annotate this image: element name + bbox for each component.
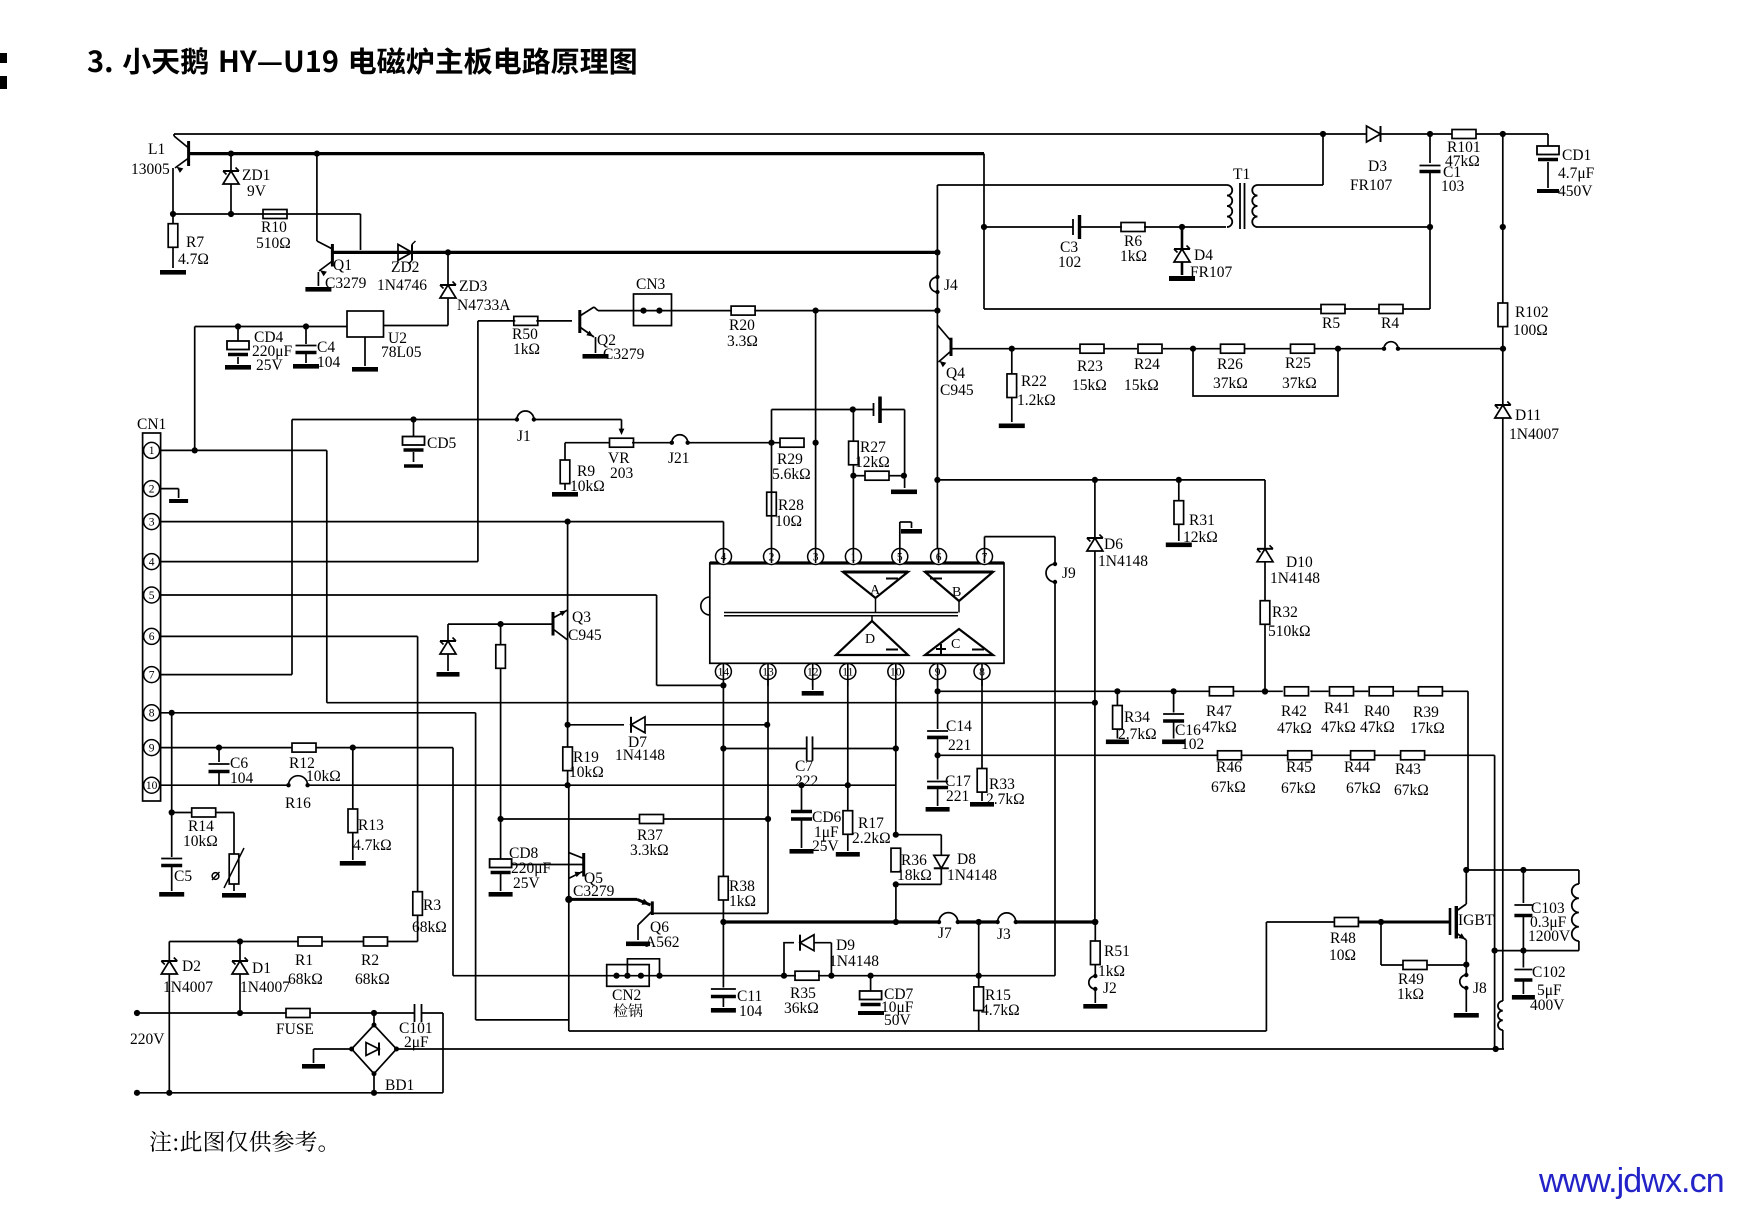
svg-text:4.7μF: 4.7μF (1558, 165, 1595, 182)
svg-text:102: 102 (1058, 254, 1081, 271)
svg-text:15kΩ: 15kΩ (1072, 377, 1107, 394)
svg-text:1kΩ: 1kΩ (1120, 248, 1147, 265)
svg-text:R2: R2 (361, 952, 379, 969)
svg-text:67kΩ: 67kΩ (1281, 780, 1316, 797)
svg-text:R32: R32 (1272, 604, 1298, 621)
ground CN1 pin2 (161, 489, 189, 503)
resistor R36 diode D8 pair (891, 835, 949, 922)
heating coil (1495, 870, 1579, 951)
svg-text:D2: D2 (182, 958, 201, 975)
svg-text:47kΩ: 47kΩ (1277, 720, 1312, 737)
label R22 (1021, 373, 1047, 390)
CN1 pin 10 (144, 777, 160, 793)
resistor R43 (1401, 751, 1425, 760)
label R101 (1447, 139, 1481, 156)
label R7 (186, 234, 204, 251)
svg-text:7: 7 (149, 669, 155, 681)
capacitor C14 (927, 691, 948, 758)
svg-text:1N4007: 1N4007 (1509, 426, 1559, 443)
svg-text:CD5: CD5 (427, 435, 457, 452)
jumper hop R25 row (1382, 342, 1400, 351)
label R38 value (729, 893, 756, 910)
svg-text:2.2kΩ: 2.2kΩ (852, 830, 891, 847)
diode D3 (1367, 126, 1453, 142)
label R2 (361, 952, 379, 969)
svg-text:R3: R3 (423, 897, 441, 914)
svg-text:1N4746: 1N4746 (377, 277, 427, 294)
wire Q3 base line (448, 621, 552, 627)
svg-text:A: A (870, 583, 881, 598)
label 220V (130, 1031, 165, 1048)
svg-text:R42: R42 (1281, 703, 1307, 720)
zener DQ3 (437, 624, 460, 677)
label Q6 A562 (645, 934, 679, 951)
IC pin 6 (931, 549, 947, 565)
svg-text:1N4007: 1N4007 (163, 979, 213, 996)
resistor R4 (1379, 305, 1403, 314)
label Q2 (597, 332, 616, 349)
label C14 221 (948, 737, 971, 754)
svg-text:C945: C945 (940, 382, 974, 399)
label R44 (1344, 759, 1370, 776)
svg-text:3.3kΩ: 3.3kΩ (630, 842, 669, 859)
regulator U2 box (347, 311, 448, 337)
CN1 pin 8 (144, 705, 160, 721)
label U2 (388, 330, 407, 347)
label R20 (729, 317, 755, 334)
label T1 (1233, 166, 1250, 183)
svg-text:1: 1 (149, 445, 155, 457)
resistor R10 (263, 210, 287, 219)
wire box under R26 R25 (1193, 349, 1338, 396)
svg-text:103: 103 (1441, 178, 1465, 195)
label CD6 1uF (814, 824, 839, 841)
resistor R102 (1498, 303, 1508, 327)
svg-text:R24: R24 (1134, 356, 1160, 373)
wire thick bus (720, 919, 1098, 925)
capacitor C103 (1514, 870, 1532, 954)
label CD1 4.7uF (1558, 165, 1595, 182)
label R32 value (1268, 623, 1311, 640)
capacitor CD1 (1537, 146, 1559, 191)
wire R101 to CD1 (1476, 131, 1548, 146)
label CD6 (812, 809, 842, 826)
svg-text:67kΩ: 67kΩ (1394, 782, 1429, 799)
svg-text:221: 221 (946, 788, 969, 805)
svg-text:www.jdwx.cn: www.jdwx.cn (1538, 1162, 1724, 1200)
resistor R26 (1221, 344, 1245, 353)
label C16 102 (1181, 736, 1204, 753)
resistor R44 (1351, 751, 1375, 760)
resistor R25 (1291, 344, 1315, 353)
label Q3 (572, 609, 591, 626)
svg-text:R28: R28 (778, 497, 804, 514)
transistor Q3 (553, 610, 568, 640)
ground IGBT emitter (1454, 1013, 1479, 1018)
label R12 value (306, 768, 341, 785)
label C4 (317, 339, 335, 356)
IC pin 2 (764, 549, 780, 565)
IC pin 4 (716, 549, 732, 565)
svg-text:47kΩ: 47kΩ (1360, 719, 1395, 736)
svg-text:D4: D4 (1194, 247, 1213, 264)
left margin scan marks (0, 53, 7, 89)
label R25 (1285, 355, 1311, 372)
svg-text:9: 9 (149, 742, 155, 754)
wire pin2 top loop (772, 406, 874, 412)
svg-text:C3279: C3279 (573, 883, 615, 900)
jumper J4 (930, 275, 940, 294)
label R44 value (1346, 780, 1381, 797)
capacitor C101 (415, 1004, 422, 1022)
svg-text:FUSE: FUSE (276, 1021, 314, 1038)
label R13 value (353, 837, 392, 854)
resistor R35 (795, 971, 874, 980)
label CD5 (427, 435, 457, 452)
label R37 value (630, 842, 669, 859)
label D11 1N4007 (1509, 426, 1559, 443)
IC pin 11 (840, 664, 856, 680)
svg-text:R46: R46 (1216, 759, 1242, 776)
wire DC bus (397, 1046, 1505, 1052)
IC pin 1 (845, 549, 861, 565)
label R10 (261, 219, 287, 236)
label C4 104 (317, 354, 341, 371)
label C6 104 (230, 770, 254, 787)
svg-text:78L05: 78L05 (381, 344, 422, 361)
svg-text:1kΩ: 1kΩ (1397, 986, 1424, 1003)
capacitor CD5 (403, 420, 425, 467)
label C17 221 (946, 788, 969, 805)
svg-text:203: 203 (610, 465, 634, 482)
svg-text:10Ω: 10Ω (775, 513, 802, 530)
label J2 (1103, 980, 1117, 997)
wire Q3 emitter riser (565, 522, 571, 728)
svg-text:1kΩ: 1kΩ (513, 341, 540, 358)
svg-text:6: 6 (149, 631, 155, 643)
label D8 1N4148 (947, 867, 997, 884)
label CN1 (137, 416, 166, 433)
svg-text:B: B (952, 585, 961, 600)
label CD6 25V (812, 838, 840, 855)
wire R5 R4 row (984, 227, 1430, 309)
wire R48 row (1266, 919, 1450, 925)
svg-text:C3279: C3279 (603, 346, 645, 363)
resistor R30 (853, 471, 907, 480)
CN1 pin 5 (144, 587, 160, 603)
CN1 pin 3 (144, 514, 160, 530)
label R29 value (772, 466, 811, 483)
wire CN1 pin9 line (161, 745, 607, 976)
diode D6 (1087, 480, 1103, 925)
label R36 value (897, 867, 932, 884)
svg-text:100Ω: 100Ω (1513, 322, 1548, 339)
label R17 value (852, 830, 891, 847)
label R49 (1398, 971, 1424, 988)
op-amp C (925, 629, 993, 655)
label R41 (1324, 700, 1350, 717)
svg-text:1.2kΩ: 1.2kΩ (1017, 392, 1056, 409)
label R34 (1124, 709, 1150, 726)
wire top thick rail (189, 151, 984, 157)
label D3 (1368, 158, 1387, 175)
capacitor C5 (159, 859, 184, 897)
capacitor C6 (209, 748, 230, 786)
svg-text:Q1: Q1 (333, 257, 352, 274)
svg-text:ZD2: ZD2 (391, 259, 419, 276)
svg-text:N4733A: N4733A (457, 297, 511, 314)
svg-text:2.7kΩ: 2.7kΩ (1118, 726, 1157, 743)
svg-text:Q4: Q4 (946, 365, 965, 382)
wire pin10 vertical (893, 680, 899, 838)
label R23 value (1072, 377, 1107, 394)
resistor R2 (364, 937, 388, 946)
jumper R16 (286, 776, 310, 788)
IC pin 14 (715, 664, 731, 680)
label BD1 (385, 1077, 414, 1094)
label C101 (399, 1020, 433, 1037)
resistor R7 (168, 214, 178, 268)
label R15 (985, 987, 1011, 1004)
label R40 value (1360, 719, 1395, 736)
label R24 (1134, 356, 1160, 373)
resistor R101 (1452, 130, 1476, 139)
label R3 value (412, 919, 447, 936)
IC internal bus (724, 598, 959, 621)
label R102 (1515, 304, 1549, 321)
svg-text:1N4148: 1N4148 (1098, 553, 1148, 570)
wire collector node (1466, 867, 1579, 873)
svg-text:4.7Ω: 4.7Ω (178, 251, 209, 268)
label R1 (295, 952, 313, 969)
label R22 value (1017, 392, 1056, 409)
svg-text:R102: R102 (1515, 304, 1549, 321)
label R14 (188, 818, 214, 835)
svg-text:8: 8 (149, 708, 155, 720)
label R9 (577, 463, 595, 480)
svg-text:2: 2 (149, 483, 155, 495)
capacitor C16 (1162, 691, 1185, 744)
diode D1 (232, 942, 248, 1017)
resistor R17 (836, 680, 860, 857)
svg-text:ZD3: ZD3 (459, 278, 488, 295)
label D11 (1515, 407, 1541, 424)
svg-text:4.7kΩ: 4.7kΩ (981, 1002, 1020, 1019)
resistor R48 (1334, 918, 1358, 927)
resistor R50 (514, 316, 538, 325)
label C11 (737, 988, 762, 1005)
svg-text:R13: R13 (358, 817, 384, 834)
transformer T1 core (1240, 183, 1245, 229)
wire CN1 pin8 line (161, 710, 569, 1020)
svg-text:68kΩ: 68kΩ (355, 971, 390, 988)
wire 479 line (937, 477, 1265, 483)
svg-text:37kΩ: 37kΩ (1213, 375, 1248, 392)
label R9 value (570, 478, 605, 495)
svg-text:510Ω: 510Ω (256, 235, 291, 252)
transistor Q2 (580, 307, 609, 359)
connector CN2 (607, 959, 663, 987)
potentiometer VR (565, 420, 634, 461)
svg-text:47kΩ: 47kΩ (1321, 719, 1356, 736)
resistor R28 (767, 492, 777, 516)
svg-text:18kΩ: 18kΩ (897, 867, 932, 884)
svg-text:R20: R20 (729, 317, 755, 334)
label CD8 (509, 845, 539, 862)
resistor R32 (1260, 601, 1270, 695)
svg-text:10kΩ: 10kΩ (183, 833, 218, 850)
svg-text:D3: D3 (1368, 158, 1387, 175)
svg-text:Q3: Q3 (572, 609, 591, 626)
label R49 value (1397, 986, 1424, 1003)
svg-text:R45: R45 (1286, 759, 1312, 776)
svg-text:R23: R23 (1077, 358, 1103, 375)
svg-text:R34: R34 (1124, 709, 1150, 726)
label C16 (1175, 722, 1201, 739)
svg-text:BD1: BD1 (385, 1077, 414, 1094)
svg-text:L1: L1 (148, 141, 165, 158)
label CD8 25V (513, 875, 541, 892)
svg-text:104: 104 (739, 1003, 763, 1020)
op-amp A (843, 572, 908, 598)
label D9 (836, 937, 855, 954)
svg-text:D: D (865, 632, 875, 647)
label R45 (1286, 759, 1312, 776)
wire CN1 pin5 line (161, 595, 727, 689)
svg-text:1N4007: 1N4007 (240, 979, 290, 996)
IC pin 7 (977, 549, 993, 565)
svg-text:IGBT: IGBT (1458, 912, 1495, 929)
resistor R15 (974, 922, 984, 1031)
svg-text:R26: R26 (1217, 356, 1243, 373)
label R2 value (355, 971, 390, 988)
svg-text:D9: D9 (836, 937, 855, 954)
capacitor CD7 (858, 976, 884, 1013)
resistor R29 (780, 438, 804, 447)
svg-text:R7: R7 (186, 234, 204, 251)
svg-text:CN2: CN2 (612, 987, 641, 1004)
label ZD3 (459, 278, 488, 295)
label CD7 50V (884, 1012, 912, 1029)
label J7 (938, 925, 952, 942)
label R32 (1272, 604, 1298, 621)
wire CN2 to R35 (660, 973, 797, 979)
label R47 (1206, 703, 1232, 720)
IC pin 3 (808, 549, 824, 565)
label D7 1N4148 (615, 747, 665, 764)
label R37 (637, 827, 663, 844)
label CD1 (1562, 147, 1591, 164)
wire x984 riser (981, 154, 987, 309)
svg-text:R48: R48 (1330, 930, 1356, 947)
label C102 400V (1530, 997, 1565, 1014)
label Q3 C945 (568, 627, 602, 644)
thermistor (212, 848, 246, 898)
ground IC pin12 (802, 680, 824, 696)
resistor R41 (1330, 687, 1354, 696)
svg-text:2.7kΩ: 2.7kΩ (986, 791, 1025, 808)
ground R51 (1083, 989, 1107, 1009)
resistor R46 (1218, 751, 1242, 760)
label D1 (252, 960, 271, 977)
svg-text:10kΩ: 10kΩ (306, 768, 341, 785)
label Q6 (650, 919, 669, 936)
label D7 (628, 734, 647, 751)
svg-text:68kΩ: 68kΩ (412, 919, 447, 936)
CN1 pin 9 (144, 740, 160, 756)
transistor Q4 (937, 325, 951, 367)
capacitor C3 (1073, 215, 1080, 239)
ground BD1 left (302, 1049, 352, 1069)
wire R49 to emitter (1428, 962, 1470, 968)
svg-text:25V: 25V (256, 357, 284, 374)
wire D10 drop (1264, 480, 1266, 549)
resistor R6 (1121, 223, 1145, 232)
label D1 1N4007 (240, 979, 290, 996)
IC U1 box (701, 563, 1004, 663)
label J9 (1062, 565, 1076, 582)
label C14 (946, 718, 972, 735)
label Q1 (333, 257, 352, 274)
IC pin 12 (805, 664, 821, 680)
IC pin 5 (892, 549, 908, 565)
resistor R9 (552, 460, 578, 497)
label D10 1N4148 (1270, 570, 1320, 587)
ground U2 (352, 337, 378, 372)
svg-text:25V: 25V (513, 875, 541, 892)
capacitor C7 (723, 736, 899, 760)
resistor R40 (1369, 687, 1393, 696)
svg-text:47kΩ: 47kΩ (1202, 719, 1237, 736)
wire R35 line right (871, 973, 1055, 979)
label R27 (860, 439, 886, 456)
label CD7 (884, 986, 914, 1003)
svg-text:3: 3 (149, 516, 155, 528)
svg-text:5.6kΩ: 5.6kΩ (772, 466, 811, 483)
label R4 (1381, 315, 1399, 332)
svg-text:1N4148: 1N4148 (829, 953, 879, 970)
wire pin9 row (935, 680, 1469, 871)
label R102 value (1513, 322, 1548, 339)
label J3 (997, 926, 1011, 943)
svg-text:J9: J9 (1062, 565, 1076, 582)
label R27 value (855, 454, 890, 471)
svg-text:J8: J8 (1473, 980, 1487, 997)
svg-text:68kΩ: 68kΩ (288, 971, 323, 988)
svg-text:15kΩ: 15kΩ (1124, 377, 1159, 394)
diode ZD2 (398, 241, 416, 264)
resistor R3 (413, 892, 423, 942)
IC pin stubs (723, 549, 984, 687)
label R42 value (1277, 720, 1312, 737)
svg-text:R22: R22 (1021, 373, 1047, 390)
label J21 (668, 450, 690, 467)
wire Q4 vertical (934, 185, 940, 549)
wire gate bus drop (569, 899, 1267, 1031)
resistor R39 (1418, 687, 1442, 696)
label R26 (1217, 356, 1243, 373)
wire pin5 hook (900, 522, 922, 549)
svg-text:1kΩ: 1kΩ (1098, 963, 1125, 980)
label D6 1N4148 (1098, 553, 1148, 570)
resistor R19 (563, 725, 573, 785)
svg-text:13005: 13005 (131, 161, 170, 178)
resistor R14 (172, 808, 234, 854)
svg-text:R5: R5 (1322, 315, 1340, 332)
jumper J1 (515, 411, 536, 422)
resistor R24 (1138, 344, 1162, 353)
label Q4 (946, 365, 965, 382)
